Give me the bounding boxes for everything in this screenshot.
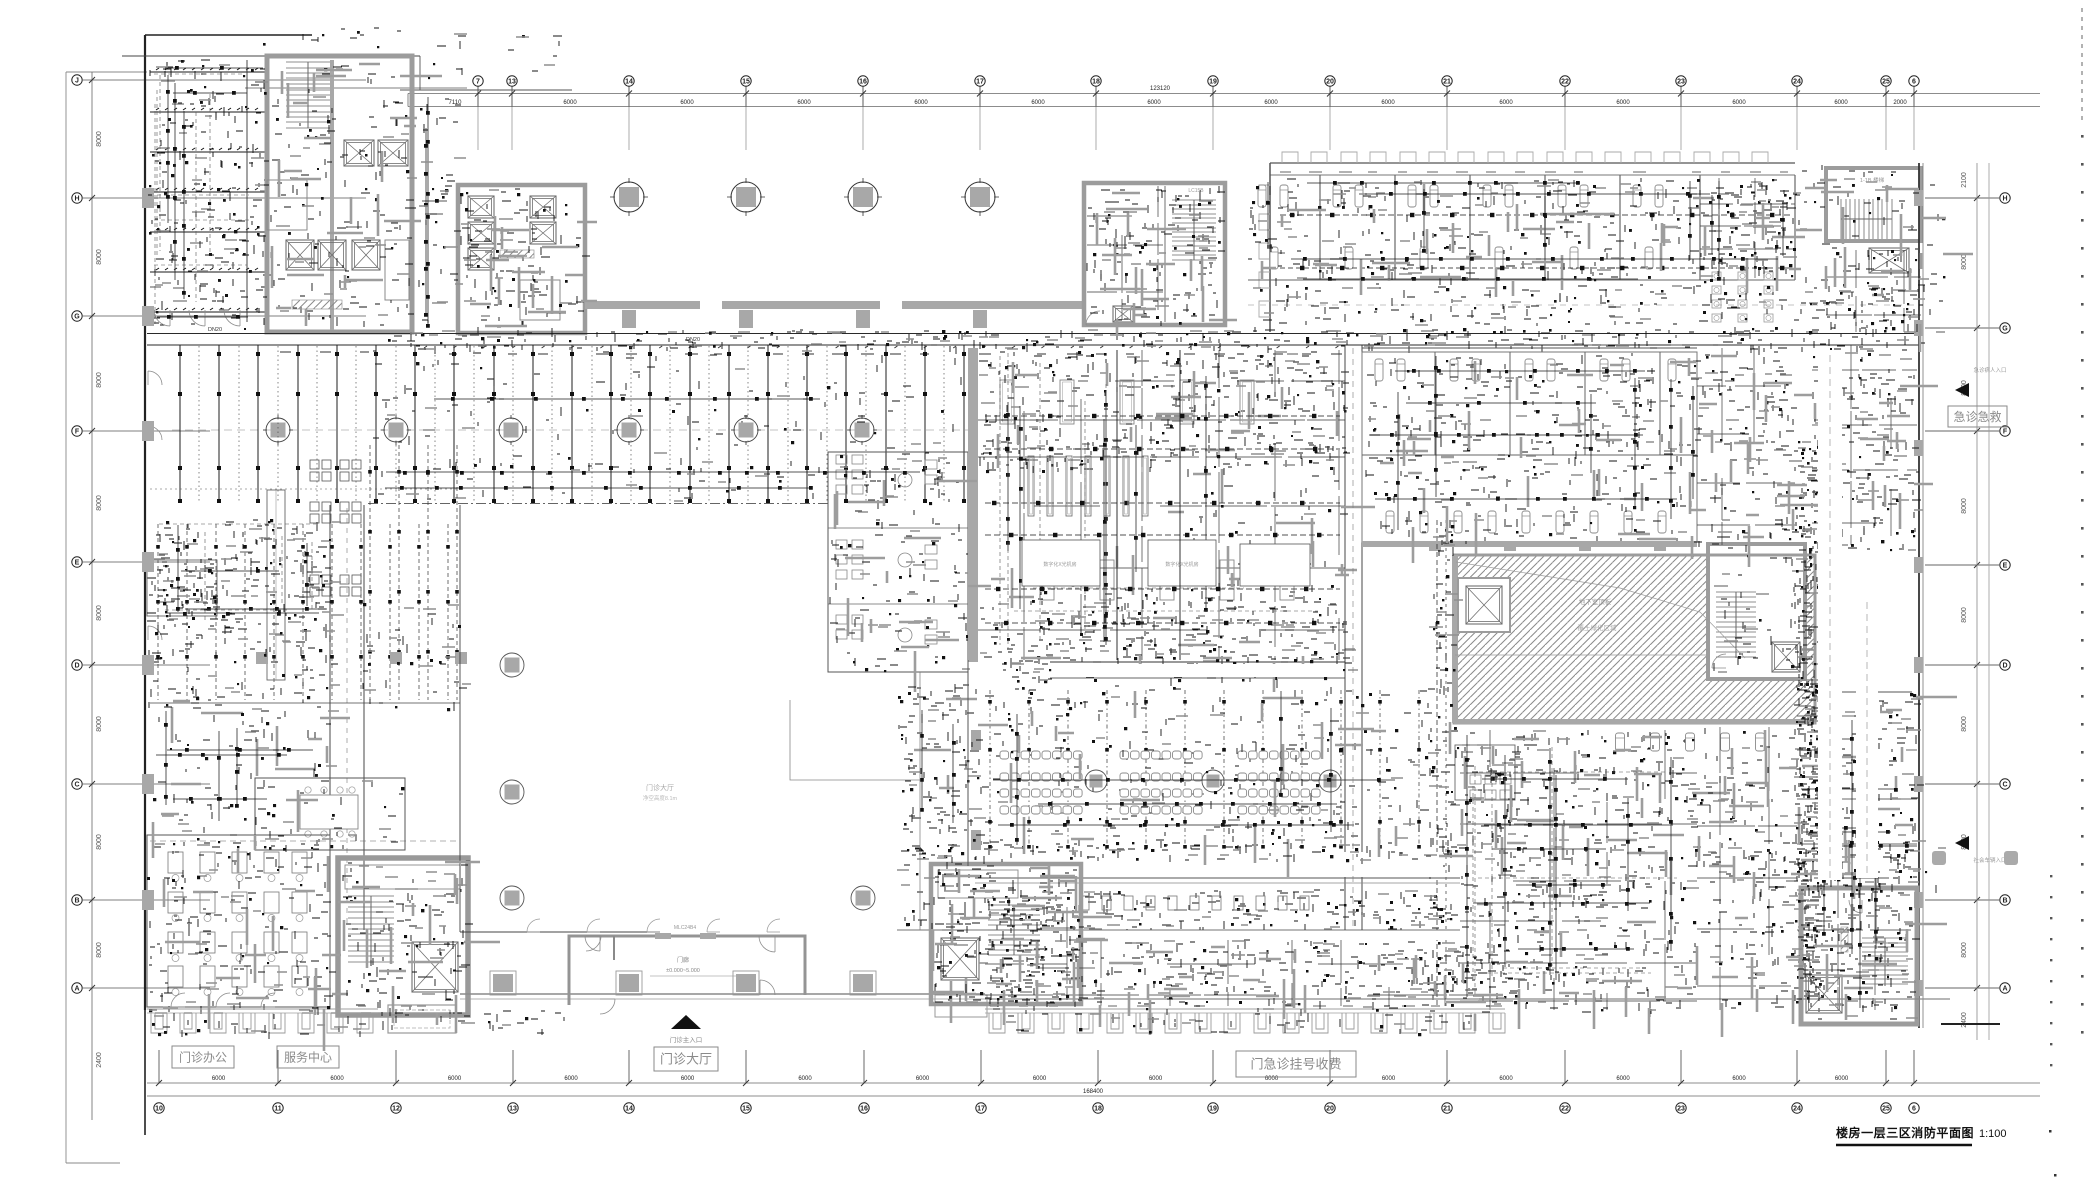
svg-text:21: 21 — [1443, 1106, 1451, 1113]
svg-text:A: A — [74, 986, 79, 993]
svg-text:6000: 6000 — [680, 100, 694, 106]
svg-text:门廊: 门廊 — [677, 956, 689, 964]
svg-text:8000: 8000 — [1961, 942, 1968, 958]
svg-text:16: 16 — [860, 1106, 868, 1113]
svg-text:6000: 6000 — [914, 100, 928, 106]
svg-text:门诊大厅: 门诊大厅 — [646, 783, 674, 792]
svg-text:22: 22 — [1561, 79, 1569, 86]
svg-text:地下室顶板: 地下室顶板 — [1579, 597, 1612, 606]
svg-text:6000: 6000 — [1382, 1076, 1396, 1082]
svg-text:6000: 6000 — [797, 100, 811, 106]
svg-text:18: 18 — [1094, 1106, 1102, 1113]
svg-text:6000: 6000 — [1031, 100, 1045, 106]
svg-text:G: G — [74, 314, 80, 321]
svg-text:14: 14 — [625, 1106, 633, 1113]
svg-text:6000: 6000 — [1149, 1076, 1163, 1082]
svg-text:8000: 8000 — [1961, 498, 1968, 514]
svg-text:6000: 6000 — [1835, 1076, 1849, 1082]
svg-text:6000: 6000 — [1616, 100, 1630, 106]
svg-text:8000: 8000 — [96, 834, 103, 850]
svg-text:24: 24 — [1793, 1106, 1801, 1113]
svg-text:B: B — [2002, 898, 2007, 905]
svg-text:13: 13 — [508, 79, 516, 86]
svg-text:6000: 6000 — [1616, 1076, 1630, 1082]
svg-text:8000: 8000 — [96, 605, 103, 621]
svg-text:门诊办公: 门诊办公 — [179, 1049, 227, 1064]
svg-text:B: B — [74, 898, 79, 905]
svg-text:6000: 6000 — [681, 1076, 695, 1082]
svg-text:急诊急救: 急诊急救 — [1953, 409, 2001, 424]
svg-text:G: G — [2002, 326, 2008, 333]
svg-text:急诊病人入口: 急诊病人入口 — [1973, 366, 2006, 374]
svg-text:8000: 8000 — [1961, 607, 1968, 623]
svg-text:D: D — [2002, 663, 2007, 670]
svg-text:数字化X光机房: 数字化X光机房 — [1165, 561, 1198, 568]
svg-text:21: 21 — [1443, 79, 1451, 86]
svg-text:20: 20 — [1326, 1106, 1334, 1113]
svg-text:7: 7 — [476, 79, 480, 86]
svg-text:楼房一层三区消防平面图: 楼房一层三区消防平面图 — [1836, 1125, 1974, 1140]
svg-text:1:100: 1:100 — [1979, 1128, 2007, 1140]
svg-text:H: H — [74, 196, 79, 203]
svg-text:6000: 6000 — [1147, 100, 1161, 106]
svg-text:8000: 8000 — [96, 495, 103, 511]
svg-text:6000: 6000 — [1499, 100, 1513, 106]
svg-text:17: 17 — [976, 79, 984, 86]
svg-text:25: 25 — [1882, 1106, 1890, 1113]
svg-text:12: 12 — [392, 1106, 400, 1113]
svg-text:社会车辆入口: 社会车辆入口 — [1973, 856, 2006, 864]
svg-text:19: 19 — [1209, 79, 1217, 86]
svg-text:6: 6 — [1912, 1106, 1916, 1113]
svg-text:6000: 6000 — [448, 1076, 462, 1082]
svg-text:6000: 6000 — [1834, 100, 1848, 106]
svg-text:11: 11 — [274, 1106, 282, 1113]
svg-text:24: 24 — [1793, 79, 1801, 86]
svg-text:J: J — [75, 78, 79, 85]
svg-text:20: 20 — [1326, 79, 1334, 86]
svg-text:19: 19 — [1209, 1106, 1217, 1113]
svg-text:门诊大厅: 门诊大厅 — [660, 1052, 712, 1067]
svg-text:覆土绿化区域: 覆土绿化区域 — [1578, 623, 1618, 632]
svg-text:25: 25 — [1882, 79, 1890, 86]
svg-text:E: E — [75, 560, 80, 567]
svg-text:8000: 8000 — [96, 131, 103, 147]
svg-text:2400: 2400 — [1961, 1012, 1968, 1028]
svg-text:2400: 2400 — [96, 1052, 103, 1068]
svg-text:8000: 8000 — [96, 942, 103, 958]
svg-text:2000: 2000 — [1893, 100, 1907, 106]
svg-text:10: 10 — [155, 1106, 163, 1113]
svg-text:6000: 6000 — [916, 1076, 930, 1082]
svg-text:15: 15 — [742, 79, 750, 86]
svg-text:MLC24B4: MLC24B4 — [674, 925, 696, 931]
svg-text:8000: 8000 — [96, 372, 103, 388]
svg-text:D: D — [74, 663, 79, 670]
svg-text:6000: 6000 — [1381, 100, 1395, 106]
svg-text:F: F — [75, 429, 80, 436]
svg-text:6000: 6000 — [564, 1076, 578, 1082]
svg-text:8000: 8000 — [96, 716, 103, 732]
svg-text:22: 22 — [1561, 1106, 1569, 1113]
svg-text:C: C — [2002, 782, 2007, 789]
svg-text:23: 23 — [1677, 1106, 1685, 1113]
svg-text:6000: 6000 — [798, 1076, 812, 1082]
svg-text:H: H — [2002, 196, 2007, 203]
svg-text:123120: 123120 — [1150, 86, 1171, 92]
svg-text:15: 15 — [742, 1106, 750, 1113]
svg-text:DN20: DN20 — [686, 337, 700, 343]
svg-text:13: 13 — [509, 1106, 517, 1113]
svg-text:E: E — [2003, 563, 2008, 570]
svg-text:16: 16 — [859, 79, 867, 86]
svg-text:8000: 8000 — [1961, 716, 1968, 732]
svg-text:6: 6 — [1912, 79, 1916, 86]
svg-text:数字化X光机房: 数字化X光机房 — [1043, 561, 1076, 568]
svg-text:18: 18 — [1092, 79, 1100, 86]
svg-text:6000: 6000 — [1732, 1076, 1746, 1082]
svg-text:净空高度8.1m: 净空高度8.1m — [643, 794, 678, 802]
svg-text:6000: 6000 — [1033, 1076, 1047, 1082]
svg-text:168400: 168400 — [1083, 1089, 1104, 1095]
svg-text:23: 23 — [1677, 79, 1685, 86]
svg-text:6000: 6000 — [1732, 100, 1746, 106]
svg-text:±0.000~5.000: ±0.000~5.000 — [666, 968, 700, 974]
svg-text:C: C — [74, 782, 79, 789]
svg-text:A: A — [2002, 986, 2007, 993]
svg-text:6000: 6000 — [1499, 1076, 1513, 1082]
svg-text:14: 14 — [625, 79, 633, 86]
svg-text:6000: 6000 — [212, 1076, 226, 1082]
svg-text:17: 17 — [977, 1106, 985, 1113]
svg-text:8000: 8000 — [1961, 254, 1968, 270]
svg-text:6000: 6000 — [330, 1076, 344, 1082]
svg-text:6000: 6000 — [1264, 100, 1278, 106]
svg-text:2100: 2100 — [1961, 172, 1968, 188]
svg-text:F: F — [2003, 429, 2008, 436]
svg-text:DN20: DN20 — [208, 327, 222, 333]
svg-text:8000: 8000 — [96, 249, 103, 265]
svg-text:服务中心: 服务中心 — [284, 1049, 332, 1064]
svg-text:门急诊挂号收费: 门急诊挂号收费 — [1250, 1057, 1341, 1072]
svg-text:6000: 6000 — [563, 100, 577, 106]
svg-text:门诊主入口: 门诊主入口 — [670, 1035, 703, 1044]
svg-text:LC15B: LC15B — [1188, 188, 1204, 194]
